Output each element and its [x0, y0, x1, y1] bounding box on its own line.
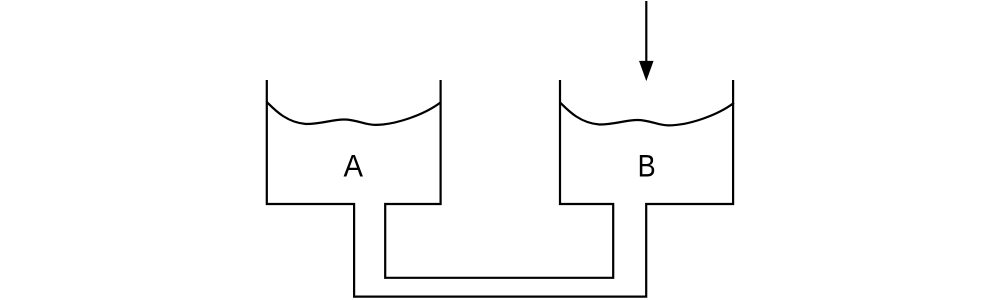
svg-text:B: B	[638, 148, 656, 184]
svg-text:A: A	[343, 148, 363, 183]
